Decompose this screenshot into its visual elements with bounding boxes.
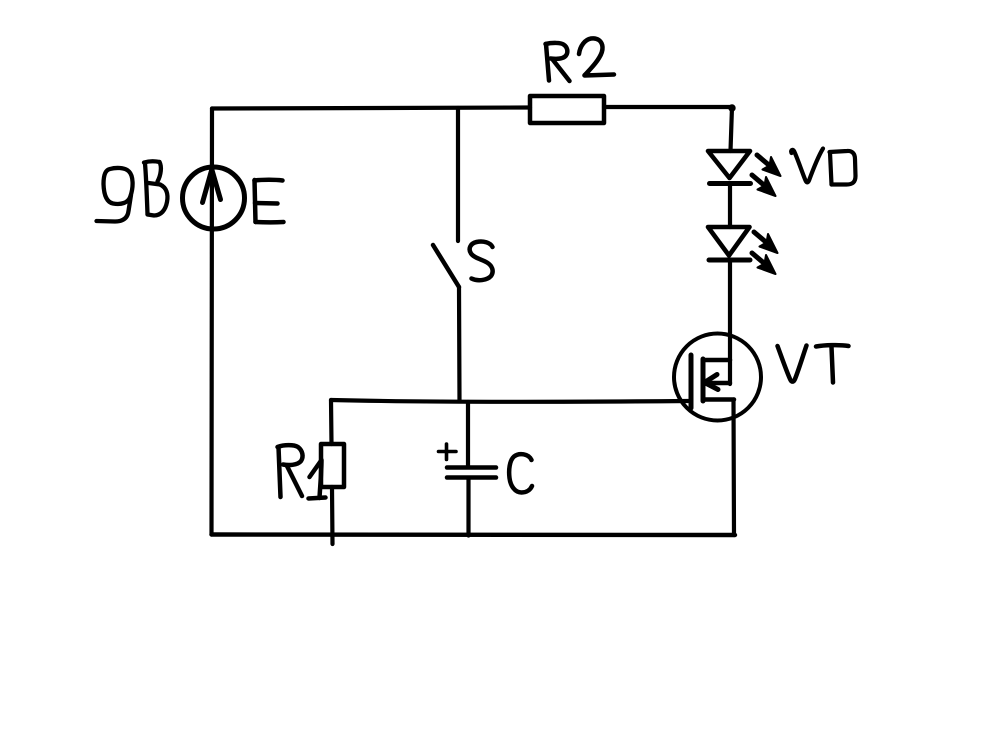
LED VD2 light arrow a xyxy=(754,232,778,253)
label E xyxy=(255,180,284,223)
LED VD2 xyxy=(708,227,750,256)
switch S blade xyxy=(433,245,459,287)
LED VD1 light arrow a xyxy=(757,155,781,176)
label 9B xyxy=(97,161,168,221)
junction dot top right corner xyxy=(729,105,735,111)
label VD xyxy=(791,149,855,185)
resistor R1 xyxy=(321,444,344,487)
transistor gate bar xyxy=(689,355,694,408)
transistor bottom horizontal xyxy=(703,397,734,402)
voltage source E circle xyxy=(183,167,245,229)
wire between LEDs xyxy=(728,184,732,227)
wire capacitor bottom xyxy=(466,478,470,536)
label R1 xyxy=(278,445,326,498)
label R2 xyxy=(546,38,615,81)
wire switch lower xyxy=(457,287,462,401)
LED VD1 light arrow b xyxy=(752,175,776,196)
wire source vertical xyxy=(731,400,736,536)
wire capacitor top xyxy=(466,402,470,466)
transistor VT circle xyxy=(674,334,761,421)
transistor arrow xyxy=(708,381,730,385)
wire top right segment xyxy=(604,105,732,109)
wire LED2 to transistor drain xyxy=(728,260,732,384)
capacitor C plates xyxy=(447,465,496,470)
transistor top horizontal xyxy=(703,358,730,363)
wire top left segment xyxy=(212,108,530,109)
label VT xyxy=(778,345,849,382)
resistor R2 xyxy=(530,96,604,123)
wire bottom xyxy=(212,532,736,537)
wire R1 top xyxy=(329,400,334,444)
label C xyxy=(509,454,532,492)
label S xyxy=(470,242,493,281)
wire R1 bottom xyxy=(330,487,335,544)
voltage source E arrow xyxy=(203,170,221,203)
transistor body bar xyxy=(701,359,706,401)
wire mid horizontal (gate net) xyxy=(331,400,688,402)
wire right vertical top xyxy=(731,107,733,151)
LED VD1 xyxy=(708,151,750,178)
label plus xyxy=(439,444,457,460)
wire switch upper xyxy=(456,108,460,241)
LED VD2 light arrow b xyxy=(752,253,776,274)
wire left vertical xyxy=(209,109,214,535)
